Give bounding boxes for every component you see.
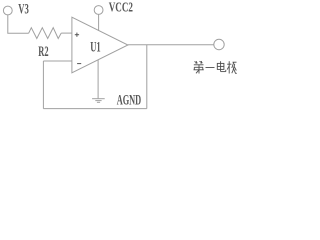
glyph 极 [227,61,237,73]
wire feedback bottom [43,108,146,110]
wire feedback down [146,45,148,109]
wire output [128,44,214,46]
op-amp minus input marker [77,63,81,65]
svg-text:V3: V3 [18,1,29,17]
resistor R2 [29,28,62,39]
svg-text:R2: R2 [38,44,48,60]
terminal VCC2 [94,6,103,15]
op-amp U1 [72,17,128,73]
wire feedback up [42,61,44,109]
svg-text:U1: U1 [90,39,101,55]
op-amp plus input marker [75,33,79,37]
wire VCC2 stem [98,14,100,30]
terminal output electrode [214,39,224,49]
wire to -in [43,60,72,62]
svg-text:AGND: AGND [117,93,142,109]
wire R2 to +in [61,32,72,34]
terminal V3 [3,6,12,15]
glyph 一 [206,67,215,69]
wire ground stem [97,60,99,99]
glyph 第 [194,61,204,74]
glyph 电 [217,61,226,71]
ground AGND [92,99,105,103]
wire V3 stem [8,15,29,33]
label first-electrode (第一电极) hand-drawn glyphs [194,61,237,74]
svg-text:VCC2: VCC2 [109,1,133,16]
